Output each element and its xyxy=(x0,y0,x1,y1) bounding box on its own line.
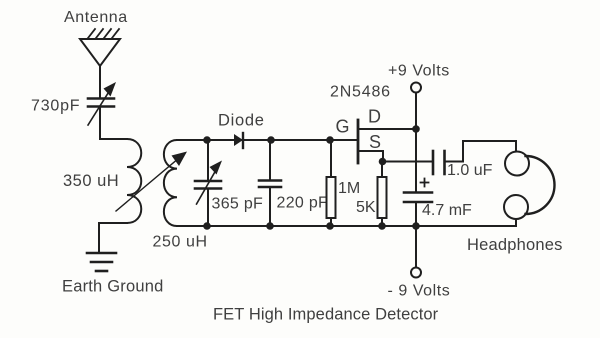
junction dots xyxy=(203,125,420,230)
node bottom rail at -9V xyxy=(412,222,420,230)
capacitor C3 220pF wires xyxy=(269,140,271,180)
capacitor C2 365pF variable arrow xyxy=(197,161,223,205)
svg-text:4.7 mF: 4.7 mF xyxy=(422,202,472,219)
capacitor C2 365pF wires xyxy=(207,140,209,180)
svg-text:220 pF: 220 pF xyxy=(277,195,329,212)
svg-text:FET High Impedance Detector: FET High Impedance Detector xyxy=(213,306,439,324)
capacitor C5 4.7mF plates xyxy=(404,193,432,203)
svg-text:350 uH: 350 uH xyxy=(63,172,119,190)
node source xyxy=(379,158,387,166)
node bottom rail at C3 xyxy=(266,222,274,230)
capacitor C1 730pF plates xyxy=(88,99,114,107)
wire bottom rail to -9V terminal xyxy=(415,226,417,268)
resistor R2 5K body xyxy=(378,177,387,218)
-9V terminal xyxy=(411,268,421,278)
node top rail at C3 xyxy=(267,136,275,144)
node top rail at L2/C2 xyxy=(203,136,211,144)
top rail wire xyxy=(207,139,358,141)
wire headphones bottom to rail xyxy=(515,219,517,226)
capacitor C3 220pF plates xyxy=(259,181,281,188)
resistor R1 1M body xyxy=(327,177,336,218)
wire antenna to C1 xyxy=(99,66,101,97)
earth ground symbol xyxy=(87,253,116,271)
wire C4 to headphones top xyxy=(445,141,517,162)
node top rail at R1 gate xyxy=(326,136,334,144)
wire C5 to bottom rail xyxy=(415,203,417,226)
svg-text:365 pF: 365 pF xyxy=(212,196,264,213)
node bottom rail at L2/C2 xyxy=(203,222,211,230)
capacitor C1 730pF variable arrow xyxy=(88,82,116,125)
svg-text:S: S xyxy=(369,132,381,152)
svg-text:Earth Ground: Earth Ground xyxy=(62,278,163,296)
wire +9V to drain and C5 xyxy=(415,93,417,192)
svg-text:G: G xyxy=(336,117,350,137)
transistor Q1 gate bar xyxy=(357,120,360,163)
headphones band arc xyxy=(526,156,555,214)
node drain at +9V line xyxy=(412,125,420,133)
resistor R2 5K wires xyxy=(381,162,383,178)
svg-text:1.0 uF: 1.0 uF xyxy=(447,162,493,179)
svg-text:5K: 5K xyxy=(356,199,376,216)
transistor Q1 drain lead xyxy=(358,128,416,130)
wire C1 to L1 xyxy=(100,107,127,139)
node bottom rail at R2 xyxy=(378,222,386,230)
+9V terminal xyxy=(411,83,421,93)
svg-text:2N5486: 2N5486 xyxy=(330,84,391,101)
headphones earpiece bottom xyxy=(504,195,528,219)
node bottom rail at R1 xyxy=(326,222,334,230)
svg-text:730pF: 730pF xyxy=(31,98,80,115)
transistor Q1 source lead xyxy=(358,151,383,162)
svg-text:250 uH: 250 uH xyxy=(153,234,208,251)
svg-text:Diode: Diode xyxy=(218,112,265,130)
capacitor C4 1.0uF plates xyxy=(433,151,445,174)
variable coupling arrow across L1 L2 xyxy=(116,152,187,212)
diode D1 xyxy=(234,133,243,148)
antenna A1 triangle xyxy=(80,39,120,66)
bottom rail wire xyxy=(207,225,516,227)
wire source node to C4 xyxy=(383,161,432,163)
headphones earpiece top xyxy=(505,152,529,176)
capacitor C5 4.7mF plus sign xyxy=(421,179,429,187)
resistor R1 1M wires xyxy=(330,140,332,177)
svg-text:D: D xyxy=(368,107,381,127)
antenna A1 hatch marks xyxy=(88,29,119,38)
wire L1 to earth ground xyxy=(99,223,127,252)
svg-text:1M: 1M xyxy=(338,180,360,197)
wire L2 bottom to rail xyxy=(177,225,207,227)
wire L2 top to node xyxy=(177,139,207,141)
svg-text:- 9 Volts: - 9 Volts xyxy=(388,283,451,300)
svg-text:+9 Volts: +9 Volts xyxy=(388,63,450,80)
capacitor C2 365pF plates xyxy=(195,181,221,189)
inductor L1 350uH coil xyxy=(127,139,141,223)
inductor L2 250uH coil xyxy=(164,140,177,226)
svg-text:Headphones: Headphones xyxy=(467,236,563,254)
svg-text:Antenna: Antenna xyxy=(64,9,128,26)
